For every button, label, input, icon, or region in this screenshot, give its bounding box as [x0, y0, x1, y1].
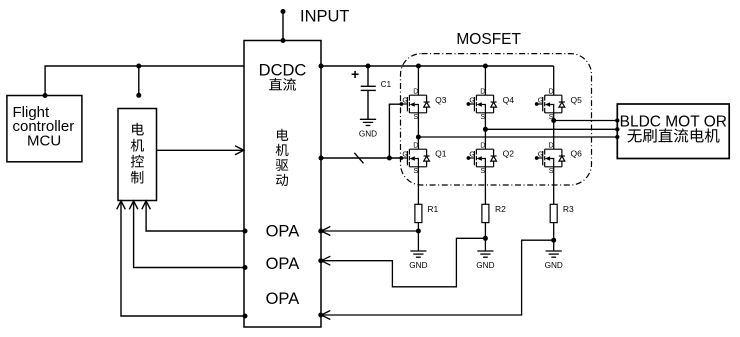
label 无刷直流电机 — [627, 128, 719, 142]
wire R1 to ground — [417, 223, 419, 251]
node dot OPA1 output on DCDC left edge — [243, 229, 248, 234]
wire source Q5 to phase node — [553, 113, 555, 121]
svg-text:Q4: Q4 — [503, 95, 515, 105]
node dot rail at DCDC right edge — [319, 64, 324, 69]
svg-text:R3: R3 — [563, 204, 574, 214]
svg-text:Q3: Q3 — [435, 95, 447, 105]
node junction rail col2 — [483, 64, 488, 69]
svg-text:GND: GND — [409, 261, 427, 270]
block U1 DCDC / motor driver / OPA — [244, 41, 321, 328]
wire gate drive line with bus slash — [321, 157, 401, 159]
node dot OPA2 input — [318, 258, 323, 263]
ground GND under R3 — [546, 251, 562, 257]
svg-text:Q1: Q1 — [435, 149, 447, 159]
node phase B junction — [483, 127, 488, 132]
wire phase C to motor — [554, 120, 618, 122]
wire drain Q3 from rail — [417, 66, 419, 95]
transistor Q5 — [535, 87, 565, 122]
node sense C junction — [551, 238, 556, 243]
svg-text:Q5: Q5 — [571, 95, 583, 105]
ground GND under R1 — [410, 251, 426, 257]
resistor R2 — [482, 204, 489, 222]
block U3 motor control 电机控制 — [118, 109, 157, 201]
svg-text:BLDC MOT OR: BLDC MOT OR — [620, 113, 727, 130]
svg-text:MOSFET: MOSFET — [456, 31, 521, 48]
wire OPA2 output to motor control — [134, 203, 245, 268]
wire branch to motor-control area — [138, 66, 140, 95]
svg-text:MCU: MCU — [27, 133, 61, 150]
transistor Q3 — [400, 87, 430, 122]
svg-text:+: + — [351, 66, 359, 82]
svg-text:DCDC: DCDC — [259, 62, 307, 80]
svg-text:Q6: Q6 — [571, 149, 583, 159]
node dot phase C at motor — [615, 118, 619, 122]
transistor Q2 — [467, 141, 497, 176]
wire source Q6 to R3 — [553, 167, 555, 205]
node dot C1 tap — [366, 64, 371, 69]
wire phase A to motor — [418, 136, 617, 138]
node dot OPA2 output on DCDC left edge — [243, 265, 248, 270]
node junction gate branch — [387, 156, 392, 161]
arrow into motor control box pin3 — [117, 201, 126, 209]
wire drain Q1 — [417, 137, 419, 149]
wire source Q2 to R2 — [484, 167, 486, 205]
node dot OPA3 output on DCDC left edge — [243, 314, 248, 319]
svg-text:OPA: OPA — [266, 255, 300, 273]
node dot on Flight box top — [43, 93, 48, 98]
ground GND under C1 — [360, 119, 376, 125]
svg-text:OPA: OPA — [266, 223, 300, 241]
node phase C junction — [551, 118, 556, 123]
arrow OPA3 input — [321, 311, 330, 320]
wire top supply rail DCDC to bridge — [321, 65, 554, 67]
label Flight controller MCU — [13, 104, 75, 150]
svg-text:Q2: Q2 — [503, 149, 515, 159]
svg-text:C1: C1 — [381, 80, 392, 89]
node phase A junction — [416, 135, 421, 140]
wire gate branch to Q3 — [389, 104, 400, 158]
wire R2 to ground — [484, 223, 486, 251]
node terminal dot above motor control box — [136, 93, 141, 98]
wire INPUT stub — [282, 12, 284, 41]
wire OPA1 sense input — [321, 230, 419, 232]
svg-text:INPUT: INPUT — [300, 8, 350, 26]
node sense B junction — [483, 236, 488, 241]
svg-text:GND: GND — [359, 130, 377, 139]
label 电机控制 vertical — [131, 123, 144, 184]
svg-text:R2: R2 — [495, 204, 506, 214]
wire R3 to ground — [553, 223, 555, 251]
node dot OPA3 input — [318, 313, 323, 318]
arrow into motor control box pin2 — [129, 201, 138, 209]
transistor Q6 — [535, 141, 565, 176]
wire drain Q6 — [553, 121, 555, 150]
wire drain Q2 — [484, 129, 486, 149]
wire OPA3 sense input — [321, 240, 554, 315]
wire drain Q4 from rail — [484, 66, 486, 95]
svg-text:GND: GND — [545, 261, 563, 270]
node junction on bus — [136, 64, 141, 69]
transistor Q4 — [467, 87, 497, 122]
wire source Q1 to R1 — [417, 167, 419, 205]
svg-text:R1: R1 — [427, 204, 438, 214]
label 电机驱动 vertical — [276, 129, 289, 186]
capacitor C1 — [361, 66, 376, 119]
svg-text:GND: GND — [476, 261, 494, 270]
label 直流 — [269, 78, 296, 91]
transistor Q1 — [400, 141, 430, 176]
wire OPA3 output to motor control — [121, 203, 245, 317]
resistor R1 — [415, 204, 422, 222]
ground GND under R2 — [477, 251, 493, 257]
arrow OPA1 input — [321, 227, 330, 236]
node dot OPA1 input — [318, 229, 323, 234]
node dot phase B at motor — [615, 127, 619, 131]
svg-text:OPA: OPA — [266, 290, 300, 308]
arrow into motor control box pin1 — [142, 201, 151, 209]
wire OPA1 output to motor control — [146, 203, 245, 232]
wire phase B to motor — [485, 128, 617, 130]
arrow OPA2 input — [321, 256, 330, 265]
label bus slash — [354, 153, 363, 164]
wire motor-control to DCDC with arrow — [157, 149, 244, 151]
wire source Q3 to phase node — [417, 113, 419, 137]
enclosure MOSFET dashed box — [401, 54, 592, 185]
wire source Q4 to phase node — [484, 113, 486, 130]
block M1 BLDC motor — [617, 104, 729, 159]
node junction rail col1 — [416, 64, 421, 69]
wire OPA2 sense input — [321, 238, 486, 286]
resistor R3 — [550, 204, 557, 222]
wire supply bus MCU to DCDC — [45, 66, 244, 96]
node junction INPUT at DCDC box top — [281, 38, 286, 43]
wire drain Q5 from rail — [553, 66, 555, 95]
node dot gate line at DCDC edge — [319, 156, 324, 161]
node sense A junction — [416, 229, 421, 234]
block U2 Flight controller MCU — [7, 96, 82, 162]
node dot phase A at motor — [615, 135, 619, 139]
node INPUT terminal dot — [281, 9, 286, 14]
